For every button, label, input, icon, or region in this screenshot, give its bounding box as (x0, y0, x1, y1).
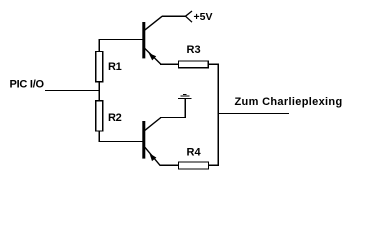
transistor Q2 (142, 118, 161, 166)
resistor R3 (178, 61, 208, 68)
svg-text:+5V: +5V (194, 11, 213, 23)
resistor R4 (178, 162, 208, 169)
wire R1 top to Q1 base (99, 39, 143, 52)
wire R4 to bus (208, 164, 219, 166)
wire Q2 collector to ground (160, 117, 186, 119)
power +5V terminal (186, 11, 193, 22)
svg-text:R2: R2 (108, 112, 122, 124)
svg-text:R4: R4 (187, 147, 202, 159)
ground (178, 94, 192, 118)
svg-text:PIC I/O: PIC I/O (10, 79, 45, 91)
resistor R1 (96, 52, 103, 82)
svg-text:R3: R3 (187, 44, 201, 56)
wire R2 bottom to Q2 base (99, 131, 143, 142)
wire bus vertical (217, 64, 219, 166)
wire PIC I/O to R1/R2 junction (45, 90, 100, 92)
wire Q2 emitter to R4 (159, 164, 178, 166)
wire Q1 emitter to +5V (162, 15, 186, 17)
wire bus to output (218, 113, 289, 115)
wire R1 bottom to R2 top (junction vertical) (98, 81, 100, 101)
svg-text:Zum Charlieplexing: Zum Charlieplexing (235, 96, 343, 108)
svg-text:R1: R1 (108, 61, 122, 73)
transistor Q1 (142, 16, 162, 64)
wire R3 to bus (208, 63, 219, 65)
resistor R2 (96, 101, 103, 131)
wire Q1 collector to R3 (160, 63, 178, 65)
